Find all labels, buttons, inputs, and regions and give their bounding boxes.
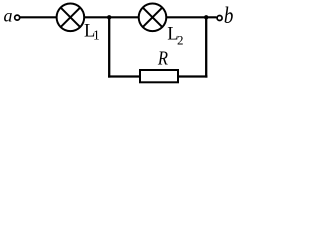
svg-text:b: b [224, 2, 234, 28]
svg-text:a: a [4, 6, 13, 26]
svg-text:R: R [157, 47, 168, 69]
svg-text:2: 2 [177, 32, 184, 47]
svg-text:1: 1 [93, 28, 100, 43]
